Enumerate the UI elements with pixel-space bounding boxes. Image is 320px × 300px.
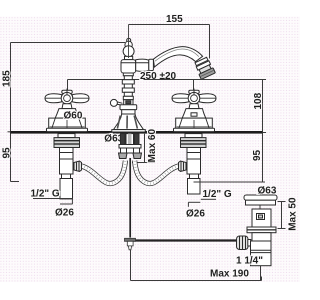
pop-up knob [117,102,123,104]
right 95 extension line [194,181,266,183]
tailpiece [60,179,73,199]
handle base [176,118,213,128]
supply pipe [126,134,134,147]
handle axis overpass [66,89,68,96]
handle bar mid lines [45,97,62,99]
side outlet nut [179,161,187,172]
upper body [252,209,271,227]
svg-text:1/2" G: 1/2" G [31,188,60,199]
lower shank [187,148,201,153]
valve body [187,153,201,175]
rod clevis joint [125,238,136,250]
left hose [82,161,126,184]
lever ball nut [237,236,249,250]
right O26 bracket [187,202,189,207]
valve body [60,153,74,175]
dimension 108 / 95 right line [259,80,266,183]
nut [121,148,140,153]
right bolt [135,134,140,145]
handle hub cap [189,90,199,93]
flange stack [181,138,207,141]
dimension Max 50 line [278,202,286,229]
dimension Max 190 line [131,250,262,281]
outlet level line [68,80,263,94]
spout arm cone [136,59,149,71]
handle base plate [47,128,88,131]
left hose nut [119,153,128,159]
horizontal pop-up rod to drain [133,239,237,241]
handle hub cap [62,90,72,93]
spout tube inner line [155,49,199,61]
aerator [194,57,216,80]
left valve below deck [54,134,82,199]
junction body [121,60,136,73]
handle bar mid lines [172,97,189,99]
right handle group [172,89,216,132]
svg-text:155: 155 [166,14,183,25]
left handle group [45,89,89,132]
column base plate [112,130,146,132]
shank [185,134,202,138]
shank [58,134,75,138]
svg-text:108: 108 [253,92,264,109]
bell base [114,114,144,130]
left O26 bracket [71,199,73,205]
dimension 155 line [129,25,210,59]
handle neck [189,104,199,109]
handle base plate [174,128,215,131]
svg-text:Ø63: Ø63 [258,185,277,196]
deck line [11,131,263,134]
finial small ball [125,41,132,48]
flange stack [54,138,80,141]
svg-text:1 1/4": 1 1/4" [236,256,263,267]
flange disc Ø63 [244,195,277,200]
dimension Max 60 line [132,134,155,163]
lower shank [60,148,74,153]
bell shading [117,116,137,129]
handle hub [61,92,73,104]
lower body [252,233,271,241]
neck ring [125,56,133,59]
leader lines over labels [33,80,265,207]
handle cross left petal [45,94,62,103]
right valve below deck [179,134,207,194]
handle base [49,118,86,128]
left 1/2G leader [33,198,73,200]
handle cross left petal [172,94,189,103]
svg-text:Ø26: Ø26 [186,208,205,219]
escutcheon flange [120,105,137,110]
finial nub [127,39,131,43]
handle skirt [55,109,79,119]
svg-text:250 ±20: 250 ±20 [140,71,177,82]
svg-text:95: 95 [252,149,263,161]
tailpiece collar [190,174,199,179]
column rings [123,73,133,76]
tailpiece collar [62,174,71,179]
collar rings [247,227,276,230]
right hose [135,161,179,184]
drain assembly [237,195,278,266]
svg-text:Max 190: Max 190 [210,269,249,280]
handle hub [188,92,200,104]
right 1/2G leader [201,198,216,200]
right hose nut [133,153,142,159]
finial ball [123,46,134,57]
outlet level line overpass [144,79,210,81]
svg-text:95: 95 [1,147,12,159]
column centre axis line [128,25,130,59]
junction mid line [122,62,149,64]
handle skirt [182,109,206,119]
svg-text:Max 50: Max 50 [287,197,298,231]
handle cross right petal [199,94,216,103]
dimension 185 / 95 left line [8,43,126,182]
svg-text:Ø60: Ø60 [64,110,83,121]
washer plate [119,145,141,149]
side outlet nut [74,161,82,172]
pop-up rod [129,158,131,238]
tail pipe [251,241,272,266]
svg-text:185: 185 [1,70,12,87]
drain axis stub [259,205,261,209]
centre column group [110,39,153,133]
left bolt [121,134,126,145]
svg-text:Max 60: Max 60 [147,129,158,163]
tailpiece [188,179,201,195]
handle cross right petal [72,94,89,103]
handle neck [62,104,72,109]
svg-text:Ø26: Ø26 [55,208,74,219]
svg-text:1/2" G: 1/2" G [203,189,232,200]
body window [257,214,265,220]
spout tube [153,47,202,67]
handle axis overpass [193,89,195,96]
centre unit below deck [119,134,142,159]
